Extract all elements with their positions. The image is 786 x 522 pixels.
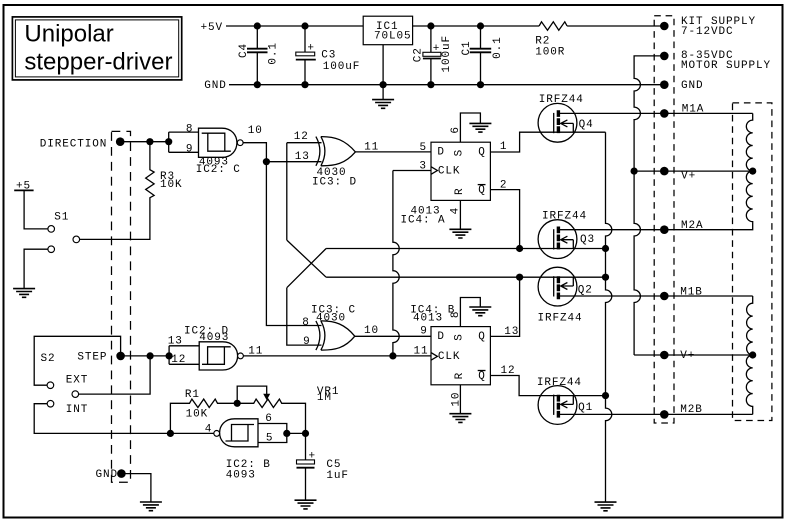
svg-text:10: 10 [248, 125, 263, 137]
svg-text:MOTOR SUPPLY: MOTOR SUPPLY [681, 60, 771, 72]
wire QB to Q2 gate [326, 277, 605, 336]
ground at IC4:B set [469, 307, 491, 316]
svg-text:INT: INT [66, 404, 89, 416]
svg-text:100uF: 100uF [323, 61, 361, 73]
flip-flop IC4:A 4013 [401, 142, 491, 226]
regulator IC1 70L05 [363, 16, 412, 45]
switch S1 [48, 211, 80, 252]
wire GND pad to ground [121, 474, 150, 502]
svg-text:0.1: 0.1 [268, 42, 280, 65]
wire IC4:A reset pin to ground [459, 200, 461, 229]
svg-text:4: 4 [450, 207, 462, 215]
ground main bus [595, 502, 617, 511]
title box [12, 17, 181, 80]
svg-text:3: 3 [419, 160, 427, 172]
svg-text:D: D [437, 147, 445, 159]
switch S2 [41, 353, 79, 407]
svg-text:10K: 10K [186, 409, 209, 421]
svg-text:13: 13 [295, 151, 310, 163]
transistor Q2 IRFZ44 [538, 267, 577, 306]
ground under C5 [295, 500, 317, 509]
wire IC2:C output to pin13 and pin8 [243, 143, 321, 326]
wire IC1 ground pin [382, 45, 384, 100]
svg-text:GND: GND [204, 80, 227, 92]
junction dot IC2:D input [166, 352, 173, 359]
nand gate IC2:B 4093 [214, 419, 271, 482]
svg-text:Q1: Q1 [578, 402, 593, 414]
wire QA to Q4 gate [490, 132, 606, 152]
capacitor C2 [412, 26, 453, 85]
svg-text:CLK: CLK [438, 165, 461, 177]
svg-text:8: 8 [450, 311, 462, 319]
junction dot Q2 gate [516, 274, 523, 281]
svg-text:70L05: 70L05 [374, 31, 412, 43]
ground at IC4:A set [469, 123, 491, 132]
resistor R1 [170, 389, 237, 434]
svg-text:12: 12 [171, 354, 186, 366]
svg-text:4: 4 [205, 424, 213, 436]
svg-text:4030: 4030 [316, 312, 346, 324]
svg-text:10: 10 [364, 325, 379, 337]
wire INT contact to IC2:B output [34, 404, 213, 434]
wire IC2:C input bar [169, 132, 199, 152]
wire Q1 drain M2B [558, 413, 753, 415]
svg-text:11: 11 [414, 345, 429, 357]
inductor motor winding 1 [664, 113, 756, 229]
svg-text:IRFZ44: IRFZ44 [539, 94, 584, 106]
wire CLK bus vertical [393, 171, 431, 356]
junction dot Q1 source [602, 392, 609, 399]
wire QbarA to Q3 gate [326, 190, 605, 249]
svg-text:IC3: D: IC3: D [312, 177, 357, 189]
svg-text:4093: 4093 [226, 470, 256, 482]
wire STEP to IC2:D [121, 355, 170, 357]
wire GND rail [229, 84, 664, 86]
svg-text:M2A: M2A [681, 220, 704, 232]
wire Q4 drain M1A [558, 112, 753, 114]
transistor Q4 IRFZ44 [538, 103, 577, 142]
wire pin 13 IC3:D [266, 161, 321, 163]
junction dot S2 common [147, 352, 154, 359]
svg-text:Q2: Q2 [578, 285, 593, 297]
junction dot V+ tap [631, 168, 638, 175]
wire regulator output rail [413, 25, 665, 27]
cross coupling diagonals [287, 240, 326, 288]
svg-text:100uF: 100uF [441, 35, 453, 73]
junction dot Q2 source [602, 274, 609, 281]
junction dot input tie [283, 430, 290, 437]
wire IC4:B reset pin to ground [459, 385, 461, 414]
wire EXT contact to STEP pad [34, 336, 120, 385]
wire QbarB to Q1 gate [490, 376, 606, 396]
svg-text:C4: C4 [238, 43, 250, 58]
junction dots gnd rail [254, 81, 484, 88]
svg-text:IRFZ44: IRFZ44 [542, 210, 587, 222]
wire IC3:D output to D pin 5 [355, 151, 431, 153]
svg-text:S2: S2 [41, 353, 56, 365]
svg-text:D: D [437, 331, 445, 343]
wire IC2:D input bar [169, 346, 199, 365]
inductor motor winding 2 [746, 296, 756, 414]
svg-text:R: R [454, 372, 466, 380]
potentiometer VR1 1M [237, 386, 339, 434]
ground left bottom [140, 502, 162, 511]
svg-text:1: 1 [500, 141, 508, 153]
wire V+ upper [634, 170, 753, 172]
svg-text:0.1: 0.1 [492, 36, 504, 59]
svg-text:Q: Q [478, 185, 486, 197]
wire IC4:B set pin to ground [460, 298, 480, 327]
wire motor supply feed [634, 56, 664, 355]
svg-text:S1: S1 [54, 211, 69, 223]
svg-text:1uF: 1uF [326, 470, 349, 482]
svg-text:Q3: Q3 [580, 234, 595, 246]
svg-text:9: 9 [303, 336, 311, 348]
junction dot CLK tap [389, 352, 396, 359]
svg-text:C1: C1 [461, 40, 473, 55]
flip-flop IC4:B 4013 [410, 304, 490, 384]
svg-text:STEP: STEP [77, 352, 107, 364]
svg-text:DIRECTION: DIRECTION [40, 138, 108, 150]
svg-text:+: + [433, 43, 441, 55]
junction dot pin13 [263, 158, 270, 165]
xor gate IC3:C 4030 [311, 304, 356, 350]
capacitor C1 [461, 26, 504, 85]
nand gate IC2:C 4093 [196, 128, 243, 176]
svg-text:100R: 100R [535, 47, 565, 59]
resistor R2 [539, 22, 567, 30]
svg-text:10: 10 [451, 392, 463, 407]
transistor Q3 IRFZ44 [538, 220, 577, 259]
ground under IC1 [372, 100, 394, 109]
wire S1 lower contact to ground [24, 249, 48, 288]
svg-text:R: R [454, 187, 466, 195]
junction dot C5 node [302, 430, 309, 437]
svg-text:V+: V+ [680, 350, 695, 362]
svg-text:stepper-driver: stepper-driver [24, 49, 172, 76]
wire IC2:B inputs 5 6 tie [258, 424, 306, 443]
wire +5V rail [226, 25, 363, 27]
resistor R3 [80, 142, 183, 240]
svg-text:4093: 4093 [199, 332, 229, 344]
svg-text:S: S [454, 333, 466, 341]
wire IC4:A set pin to ground [460, 113, 480, 142]
svg-text:9: 9 [186, 144, 194, 156]
svg-text:+5V: +5V [201, 22, 224, 34]
svg-text:IC2: C: IC2: C [196, 164, 241, 176]
junction dot R1/VR1 [234, 400, 241, 407]
svg-text:M1B: M1B [680, 287, 703, 299]
junction dot R1 tap [167, 430, 174, 437]
svg-text:Q4: Q4 [579, 119, 594, 131]
svg-text:Unipolar: Unipolar [24, 21, 113, 48]
motor dashed box [733, 103, 772, 421]
svg-text:10K: 10K [160, 179, 183, 191]
svg-text:IRFZ44: IRFZ44 [538, 312, 583, 324]
capacitor C4 [238, 26, 280, 85]
svg-text:1M: 1M [317, 392, 332, 404]
ground at IC4:B reset [449, 414, 471, 423]
wire IC3:C output to D pin 9 [355, 335, 431, 337]
wire pin 12 bar to X coupling [287, 143, 322, 240]
wire S2 common [79, 356, 150, 394]
xor gate IC3:D 4030 [312, 137, 357, 189]
wire DIRECTION [120, 141, 169, 143]
junction dot R3 top [146, 138, 153, 145]
svg-text:C2: C2 [412, 47, 424, 62]
svg-text:V+: V+ [681, 171, 696, 183]
power +5 symbol [14, 180, 48, 229]
svg-text:C3: C3 [321, 50, 336, 62]
wire source ground bus [606, 132, 612, 502]
svg-text:Q: Q [478, 147, 486, 159]
svg-text:Q: Q [478, 331, 486, 343]
svg-text:4013: 4013 [413, 312, 443, 324]
svg-text:S: S [454, 149, 466, 157]
svg-text:12: 12 [294, 131, 309, 143]
svg-text:+: + [309, 450, 317, 462]
svg-text:IRFZ44: IRFZ44 [537, 377, 582, 389]
svg-text:8: 8 [302, 317, 310, 329]
svg-text:+: + [307, 43, 315, 55]
pad STEP [116, 352, 125, 361]
svg-text:EXT: EXT [66, 375, 89, 387]
feed-through dashed connector left [112, 131, 131, 482]
svg-text:5: 5 [420, 142, 428, 154]
svg-text:13: 13 [168, 335, 183, 347]
svg-text:CLK: CLK [438, 351, 461, 363]
wire Q3 drain M2A [558, 229, 664, 231]
junction dot Q3 gate [516, 245, 523, 252]
svg-text:9: 9 [420, 326, 428, 338]
svg-text:13: 13 [504, 326, 519, 338]
svg-text:6: 6 [450, 126, 462, 134]
svg-text:R1: R1 [185, 389, 200, 401]
junction dot IC2:C input [165, 138, 172, 145]
ground under S1 [13, 289, 35, 298]
svg-text:7-12VDC: 7-12VDC [681, 26, 734, 38]
junction dot Q3 source [602, 245, 609, 252]
svg-text:2: 2 [500, 179, 508, 191]
svg-text:IC4: A: IC4: A [401, 215, 446, 227]
junction dots top rail [254, 22, 484, 29]
connector dashed box [654, 16, 674, 423]
transistor Q1 IRFZ44 [538, 386, 577, 425]
wire Q2 drain M1B [558, 295, 753, 297]
ground at IC4:A reset [449, 229, 471, 238]
wire lower coupling bar to pin 9 [287, 288, 322, 345]
pad DIRECTION [116, 137, 125, 146]
svg-text:GND: GND [96, 469, 119, 481]
pad GND [117, 469, 126, 478]
capacitor C3 [296, 26, 361, 85]
nand gate IC2:D 4093 [184, 326, 243, 370]
svg-text:Q: Q [478, 370, 486, 382]
capacitor C5 [297, 433, 349, 500]
connector pads [660, 22, 669, 419]
svg-text:GND: GND [681, 80, 704, 92]
wire V+ lower [634, 354, 753, 356]
svg-text:8: 8 [186, 123, 194, 135]
svg-text:M1A: M1A [682, 104, 705, 116]
svg-text:M2B: M2B [680, 404, 703, 416]
wire IC2:D output to CLK pins [243, 355, 431, 357]
